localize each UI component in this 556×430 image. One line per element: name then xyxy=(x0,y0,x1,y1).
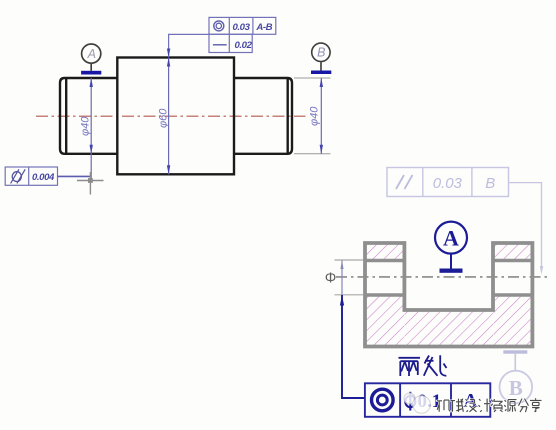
shaft right section chamfer line xyxy=(287,78,289,154)
target cross marker xyxy=(77,172,104,195)
datum feature symbol A (upper) xyxy=(81,44,101,75)
svg-text:φ60: φ60 xyxy=(157,108,169,128)
feature control frame: parallelism 0.03 B (pale) xyxy=(387,168,509,197)
lower part outline xyxy=(365,243,532,347)
dimension Φ of bore xyxy=(325,260,363,306)
svg-text:0.03: 0.03 xyxy=(433,175,463,192)
feature control frame: concentricity 0.03 A-B xyxy=(209,17,276,34)
hatching bottom band xyxy=(405,311,494,347)
shaft middle section outline xyxy=(117,58,234,175)
hatching left tab xyxy=(366,244,405,261)
svg-text:A: A xyxy=(87,47,96,61)
hatching right tab xyxy=(494,244,533,261)
shaft right section outline xyxy=(234,78,292,154)
leader from bore dimension to concentricity frame xyxy=(342,295,365,398)
bore line lower left xyxy=(365,293,404,297)
svg-text:A: A xyxy=(443,226,459,251)
hatching right column xyxy=(494,296,533,347)
leader from concentricity frame to φ60 dimension xyxy=(167,34,209,57)
bore line lower right xyxy=(493,293,532,297)
feature control frame: concentricity φ0.1 A xyxy=(365,383,490,417)
svg-text:0.004: 0.004 xyxy=(32,172,55,183)
centerline upper shaft (red dash-dot axis) xyxy=(36,115,306,117)
feature control frame: straightness 0.02 xyxy=(209,34,253,52)
dimension φ60 xyxy=(157,58,170,175)
shaft left section chamfer line xyxy=(65,78,67,154)
svg-text:B: B xyxy=(317,46,325,60)
dimension φ40 left xyxy=(79,78,93,180)
bore line upper right xyxy=(493,259,532,263)
hatching left column xyxy=(366,296,405,347)
shaft left section outline xyxy=(60,78,117,154)
bore line upper left xyxy=(365,259,404,263)
datum feature symbol B (upper) xyxy=(311,43,331,74)
svg-text:B: B xyxy=(509,376,523,400)
feature control frame: cylindricity 0.004 xyxy=(5,167,57,185)
leader from parallelism frame to axis (pale) xyxy=(509,183,544,275)
dimension φ40 right with extension lines xyxy=(294,78,331,154)
leader from cylindricity frame to dimension line xyxy=(58,175,91,177)
svg-text:0.02: 0.02 xyxy=(234,40,252,51)
datum feature symbol B (lower, pale) xyxy=(500,350,533,403)
svg-text:Φ: Φ xyxy=(325,271,337,287)
svg-text:B: B xyxy=(485,175,495,192)
svg-text:A-B: A-B xyxy=(255,22,272,33)
datum feature symbol A (lower) xyxy=(435,222,467,273)
svg-text:0.03: 0.03 xyxy=(232,22,250,33)
centerline lower part (gray dash-dot axis) xyxy=(336,276,547,278)
watermark text 机械设计资源分享 drawn as strokes with white halo xyxy=(437,398,542,412)
note text 两处 (two places) drawn as strokes xyxy=(399,355,447,376)
svg-text:φ40: φ40 xyxy=(79,116,91,136)
watermark logo (pale circles) xyxy=(404,393,430,413)
svg-text:φ40: φ40 xyxy=(309,106,321,126)
